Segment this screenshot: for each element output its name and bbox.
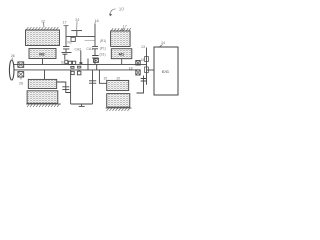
svg-text:13: 13 xyxy=(141,45,145,49)
svg-text:26: 26 xyxy=(11,54,15,58)
svg-text:10: 10 xyxy=(119,7,125,12)
svg-text:M2: M2 xyxy=(39,51,45,56)
svg-text:(S1): (S1) xyxy=(100,53,106,57)
svg-text:18: 18 xyxy=(129,66,133,70)
svg-text:24: 24 xyxy=(75,18,79,22)
svg-text:14: 14 xyxy=(161,41,165,45)
svg-text:R2: R2 xyxy=(68,40,72,44)
svg-text:17: 17 xyxy=(123,25,127,29)
svg-text:E/G: E/G xyxy=(162,69,169,74)
svg-text:(R1): (R1) xyxy=(100,39,106,43)
svg-text:17: 17 xyxy=(63,21,67,25)
svg-text:CA2: CA2 xyxy=(75,47,82,51)
svg-text:12: 12 xyxy=(41,20,45,24)
svg-text:S2: S2 xyxy=(61,60,65,64)
svg-text:19: 19 xyxy=(104,76,108,80)
svg-text:20: 20 xyxy=(117,77,121,81)
svg-text:CA1: CA1 xyxy=(87,47,94,51)
svg-text:28: 28 xyxy=(19,81,23,85)
svg-text:(P1): (P1) xyxy=(100,47,106,51)
svg-text:16: 16 xyxy=(95,19,99,23)
svg-text:M1: M1 xyxy=(119,52,125,57)
svg-text:15: 15 xyxy=(141,58,145,62)
